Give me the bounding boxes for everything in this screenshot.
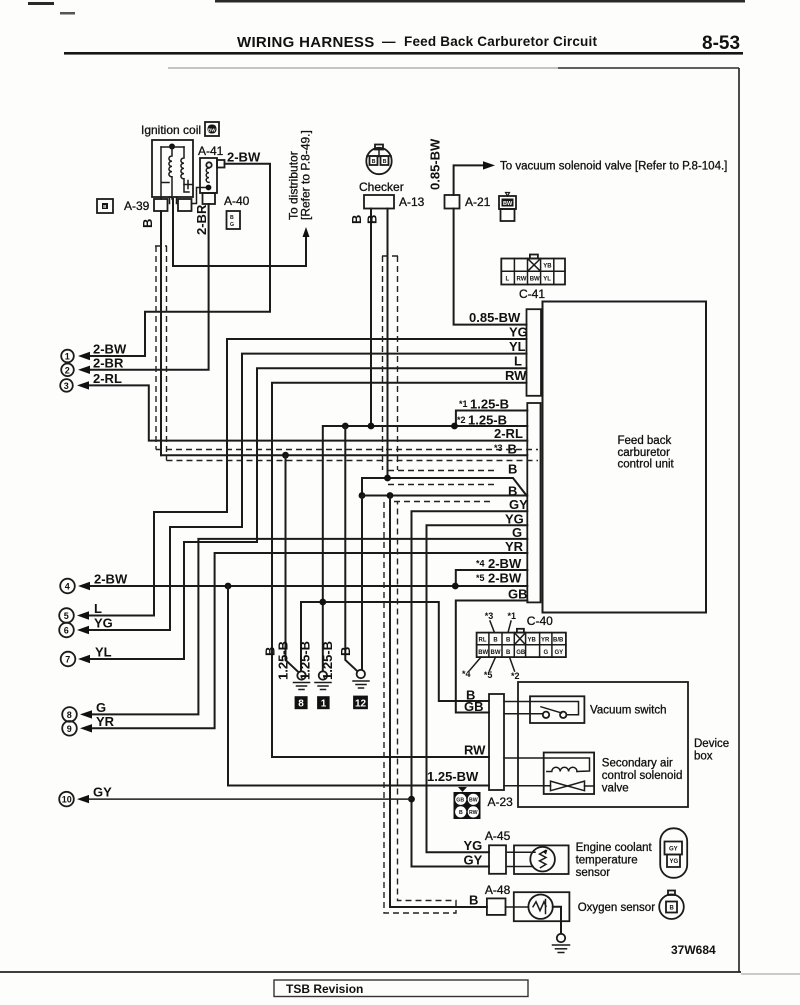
vacuum switch GB wire inside [504, 713, 543, 715]
A-40 connector icon [227, 211, 241, 229]
staircase L jog [89, 542, 257, 659]
wire YR row to circled 9 [89, 553, 527, 728]
A-41 right nub [217, 160, 225, 168]
svg-text:3: 3 [64, 381, 69, 391]
svg-text:*5: *5 [484, 670, 493, 680]
svg-text:1.25-BW: 1.25-BW [427, 769, 479, 784]
frame top line [168, 67, 558, 69]
svg-text:2-BR: 2-BR [93, 355, 124, 370]
wire G row to circled 8 [89, 539, 527, 715]
ground pin number 12 [353, 696, 368, 710]
svg-text:BW: BW [503, 201, 513, 207]
node 2-BW branch to solenoid [225, 583, 232, 590]
svg-text:G: G [544, 650, 549, 656]
svg-text:1.25-B: 1.25-B [298, 641, 313, 680]
svg-text:Vacuum switch: Vacuum switch [590, 705, 666, 717]
svg-text:box: box [694, 751, 713, 763]
svg-text:*3: *3 [494, 443, 503, 453]
svg-text:carburetor: carburetor [618, 447, 671, 459]
wire B down to A-48 oxygen sensor [390, 496, 487, 908]
svg-text:sensor: sensor [576, 867, 611, 879]
dashed harness mid horizontals [388, 470, 496, 472]
arrowhead to distributor [303, 227, 310, 237]
control unit connector strip upper [527, 309, 542, 396]
svg-text:BW: BW [208, 128, 216, 133]
circled connector 5 [59, 608, 74, 623]
wire YG2 row to A-45 [427, 525, 528, 852]
svg-text:A-23: A-23 [488, 795, 514, 809]
wire GY to circled 10 [89, 798, 412, 800]
svg-text:YB: YB [543, 264, 552, 270]
C-40 connector grid [477, 629, 566, 657]
node B link [359, 492, 366, 499]
svg-text:B: B [506, 650, 511, 656]
svg-text:B: B [372, 159, 376, 165]
ground pin number 8 [295, 696, 308, 709]
svg-text:37W684: 37W684 [671, 943, 716, 957]
plus sign [184, 181, 192, 189]
frame right line [738, 68, 740, 972]
svg-text:YG: YG [94, 616, 113, 631]
solenoid coil symbol [547, 767, 577, 771]
svg-text:RW: RW [505, 368, 527, 383]
wire *4 row [456, 570, 528, 586]
coil terminal connector A-39 side [154, 199, 168, 211]
node ground12 branch [342, 423, 349, 430]
ground 8 symbol [294, 671, 310, 689]
Vacuum switch box [530, 696, 584, 723]
svg-text:2-RL: 2-RL [93, 371, 122, 386]
coolant sensor element circle [530, 847, 555, 872]
Oxygen sensor box [514, 892, 570, 921]
svg-text:Oxygen sensor: Oxygen sensor [578, 902, 656, 914]
svg-text:—: — [382, 34, 396, 49]
circled connector 3 [60, 379, 73, 392]
svg-text:A-39: A-39 [124, 199, 150, 213]
wire 2-BR from A-41 down to circled 2 [89, 204, 209, 370]
staircase YG jog [89, 512, 227, 616]
svg-text:A-13: A-13 [399, 195, 425, 209]
A-41 connector box [200, 158, 217, 193]
wire YL row [242, 354, 527, 527]
A-45 connector [489, 845, 506, 874]
svg-text:GB: GB [516, 650, 526, 656]
node B branch to ground 8 [282, 452, 289, 459]
svg-text:BW: BW [491, 650, 501, 656]
svg-text:G: G [230, 222, 234, 228]
arrow 1 [78, 352, 90, 360]
svg-text:*3: *3 [485, 611, 494, 621]
oxygen sensor zigzag symbol [533, 902, 546, 911]
svg-text:YL: YL [95, 645, 112, 660]
jog wire plus-terminal to A-41 [192, 188, 206, 204]
svg-text:*2: *2 [457, 415, 466, 425]
circled connector 8 [62, 707, 77, 722]
circled connector 1 [61, 350, 74, 363]
svg-text:YR: YR [96, 714, 115, 729]
vacuum switch blade [541, 707, 562, 713]
wire RW row to device bar [272, 383, 527, 757]
svg-text:B/B: B/B [553, 638, 564, 644]
svg-text:B: B [338, 647, 353, 656]
wire 1.25-BW branch down to device bar [228, 586, 489, 786]
A-23 connector icon [454, 787, 481, 819]
solenoid valve symbol [551, 781, 568, 791]
svg-text:0.85-BW: 0.85-BW [428, 138, 443, 190]
svg-text:GY: GY [509, 497, 528, 512]
Secondary air control solenoid valve box [544, 753, 594, 795]
Engine coolant temperature sensor box [514, 845, 569, 874]
svg-text:B: B [140, 219, 155, 228]
circled connector 9 [62, 721, 77, 736]
ignition coil connector icon [205, 122, 219, 136]
svg-text:To vacuum solenoid valve [Refe: To vacuum solenoid valve [Refer to P.8-1… [500, 161, 727, 173]
coil top bar wire [161, 146, 184, 148]
arrow 2 [78, 366, 90, 374]
svg-text:Secondary air: Secondary air [602, 758, 673, 770]
circled connector 4 [60, 579, 75, 594]
svg-text:2-BW: 2-BW [227, 150, 261, 165]
svg-text:[Refer to P.8-49.]: [Refer to P.8-49.] [299, 130, 313, 220]
oxygen sensor ground symbol [553, 934, 570, 953]
wire 1.25-B to ground 12 diagonal [345, 426, 357, 671]
svg-text:A-45: A-45 [485, 829, 511, 843]
svg-text:B: B [466, 688, 475, 703]
svg-text:B: B [365, 215, 380, 224]
Device box outline [518, 682, 688, 807]
ground 1 symbol [315, 671, 331, 689]
svg-text:control unit: control unit [618, 459, 675, 471]
svg-text:B: B [103, 204, 106, 209]
svg-text:RW: RW [517, 277, 527, 283]
svg-text:1.25-B: 1.25-B [276, 641, 291, 680]
svg-text:B: B [469, 893, 478, 908]
svg-text:B: B [349, 215, 364, 224]
svg-text:RW: RW [464, 743, 486, 758]
svg-text:GY: GY [464, 852, 483, 867]
A-13 connector [364, 195, 394, 209]
svg-text:*4: *4 [476, 559, 485, 569]
wire *5 2-BW row to circled 4 [89, 585, 527, 587]
checker left wire B down to 1.25-B bus [370, 209, 372, 427]
dashed corridor 1 top cap [155, 245, 167, 247]
frame bottom line [0, 971, 741, 973]
svg-text:A-48: A-48 [485, 883, 511, 897]
arrow 5 [77, 611, 89, 619]
svg-text:*4: *4 [462, 669, 471, 679]
arrow 9 [80, 724, 92, 732]
arrow 4 [78, 582, 90, 590]
svg-text:B: B [506, 638, 511, 644]
svg-text:2: 2 [65, 365, 70, 375]
svg-text:control solenoid: control solenoid [602, 770, 683, 782]
wire B from A-39 down to *3 B row [160, 211, 162, 455]
svg-text:2-BW: 2-BW [94, 572, 128, 587]
dashed harness corridor 1 vertical pair [155, 246, 157, 450]
svg-text:A-40: A-40 [224, 194, 250, 208]
svg-text:G: G [96, 700, 106, 715]
coil left wire to minus terminal [160, 147, 162, 199]
svg-text:temperature: temperature [576, 855, 638, 867]
svg-text:*1: *1 [508, 611, 517, 621]
svg-text:*1: *1 [459, 399, 468, 409]
svg-text:1.25-B: 1.25-B [320, 641, 335, 680]
svg-text:GY: GY [555, 650, 564, 656]
svg-text:*2: *2 [511, 671, 520, 681]
node checker-right joins B row [384, 475, 391, 482]
dashed harness corridor 2 vertical pair [382, 256, 384, 470]
oxygen sensor connector icon [659, 891, 684, 920]
svg-text:8: 8 [67, 710, 72, 720]
wire YG row [227, 339, 527, 512]
svg-text:L: L [514, 354, 522, 369]
Checker icon [366, 145, 391, 175]
svg-text:GB: GB [456, 797, 464, 803]
A-48 connector [487, 898, 506, 915]
svg-text:GY: GY [669, 847, 678, 853]
coil pin ticks [169, 197, 171, 204]
svg-text:10: 10 [62, 795, 72, 805]
ground bus wire [301, 602, 489, 701]
dashed harness corridor 1 horizontals [156, 449, 538, 451]
node *1 joins *2 [451, 423, 458, 430]
wire GY row down to circled 10 and A-45 [412, 511, 528, 866]
control unit connector strip lower [527, 403, 540, 602]
arrow 7 [78, 655, 90, 663]
oxygen sensor element circle [528, 895, 552, 919]
svg-text:9: 9 [67, 724, 72, 734]
TSB Revision box [274, 980, 528, 997]
svg-text:L: L [94, 601, 102, 616]
svg-text:B: B [230, 215, 234, 221]
svg-text:Feed Back Carburetor Circuit: Feed Back Carburetor Circuit [404, 34, 597, 49]
svg-text:Checker: Checker [359, 180, 404, 194]
ground pin number 1 [317, 696, 330, 709]
svg-text:0.85-BW: 0.85-BW [469, 310, 521, 325]
svg-text:BW: BW [478, 650, 488, 656]
node *4 joins *5 [452, 583, 459, 590]
circled connector 10 [59, 792, 74, 807]
coolant sensor connector icon (capsule) [660, 828, 687, 878]
wire B branch down to ground 8 [286, 455, 298, 671]
coil top junction node [169, 144, 175, 150]
A-21 connector [445, 195, 460, 209]
svg-text:TSB Revision: TSB Revision [286, 982, 363, 996]
svg-text:1: 1 [321, 699, 327, 710]
header underline [64, 52, 743, 55]
Feed back carburetor control unit box [543, 302, 707, 613]
svg-text:6: 6 [64, 626, 69, 636]
svg-text:1.25-B: 1.25-B [470, 397, 509, 412]
solenoid RW wire inside [504, 758, 590, 772]
wire bus end down to ground 8 [300, 602, 302, 671]
node bus to ground 1 [319, 599, 326, 606]
svg-text:B: B [459, 810, 463, 816]
svg-text:RL: RL [479, 638, 487, 644]
wire B down to ground 12 [361, 496, 363, 670]
svg-text:BW: BW [530, 277, 540, 283]
node B drop to oxygen sensor [387, 492, 394, 499]
arrow 8 [80, 710, 92, 718]
wire *1 row [456, 411, 527, 427]
circled connector 7 [61, 652, 76, 667]
svg-text:2-BW: 2-BW [488, 571, 522, 586]
oxygen sensor ground wire [553, 907, 561, 934]
svg-text:2-BW: 2-BW [93, 342, 127, 357]
svg-text:YG: YG [464, 838, 483, 853]
ignition coil box [152, 140, 193, 197]
coolant sensor wires into element [508, 851, 535, 853]
svg-text:Ignition coil: Ignition coil [141, 123, 201, 137]
wire GB row down to device bar [456, 601, 528, 713]
svg-text:8: 8 [298, 699, 304, 710]
circled connector 6 [59, 623, 74, 638]
svg-text:BW: BW [469, 797, 478, 803]
node checker-left joins bus [368, 423, 375, 430]
svg-text:G: G [512, 525, 522, 540]
wire 2-RL row to circled 3 [89, 385, 527, 440]
svg-text:B: B [670, 906, 675, 912]
arrow 6 [77, 626, 89, 634]
svg-text:1: 1 [65, 352, 70, 362]
svg-text:2-BR: 2-BR [194, 204, 209, 235]
C-41 connector grid [501, 255, 565, 285]
svg-text:valve: valve [602, 783, 629, 795]
svg-text:7: 7 [65, 655, 70, 665]
svg-text:2-RL: 2-RL [494, 426, 523, 441]
svg-text:12: 12 [355, 698, 367, 709]
circled connector 2 [61, 364, 74, 377]
svg-text:2-BW: 2-BW [488, 556, 522, 571]
svg-text:Device: Device [694, 738, 729, 750]
arrow 10 [77, 795, 89, 803]
svg-text:A-41: A-41 [198, 144, 224, 158]
primary winding [169, 147, 172, 199]
svg-text:YR: YR [505, 539, 524, 554]
A-41 lower terminal node [206, 185, 212, 191]
svg-text:YL: YL [509, 339, 526, 354]
svg-text:YG: YG [670, 859, 679, 865]
wire B row 1 with diagonal into strip [362, 478, 527, 496]
svg-text:L: L [506, 277, 510, 283]
wire B1-B2 link [361, 478, 363, 496]
page top edge marks [28, 2, 54, 5]
wire L row [257, 368, 527, 542]
svg-text:Engine coolant: Engine coolant [576, 842, 653, 854]
svg-text:GY: GY [93, 785, 112, 800]
svg-text:RW: RW [469, 810, 478, 816]
device connector bar [489, 694, 504, 790]
svg-text:YB: YB [528, 638, 537, 644]
wire coil to distributor [173, 199, 306, 266]
thermistor symbol [540, 851, 547, 868]
svg-text:Feed back: Feed back [618, 435, 672, 447]
checker right wire B down to B row [387, 209, 389, 479]
A-21 wire down to 0.85-BW row [454, 209, 527, 325]
svg-text:C-40: C-40 [527, 614, 553, 628]
svg-text:4: 4 [65, 582, 70, 592]
svg-text:8-53: 8-53 [702, 33, 740, 54]
ground 12 symbol [353, 670, 369, 688]
vacuum switch contacts [543, 712, 549, 718]
svg-text:A-21: A-21 [465, 195, 491, 209]
wire 2-BW from A-41 to circled 1 [89, 164, 270, 356]
A-41 terminal circle [206, 162, 211, 167]
svg-text:GB: GB [508, 587, 528, 602]
A-41 bottom connector [203, 193, 216, 204]
svg-text:*5: *5 [476, 573, 485, 583]
svg-text:B: B [383, 159, 387, 165]
A-41 internal resistor squiggle [206, 168, 209, 182]
svg-text:B: B [508, 462, 517, 477]
A-21 connector icon [499, 193, 516, 222]
arrow 3 [77, 381, 89, 389]
svg-text:YL: YL [543, 277, 551, 283]
wire *3 B row from A-39 [161, 454, 527, 456]
svg-text:YR: YR [541, 638, 550, 644]
svg-text:5: 5 [64, 611, 69, 621]
svg-text:C-41: C-41 [519, 287, 545, 301]
A-39 branch icon [97, 199, 113, 213]
wire A-21 up and to vacuum solenoid arrow [454, 165, 484, 195]
dashed corridor 2 top cap [382, 255, 398, 257]
vacuum switch B wire inside [504, 702, 579, 715]
svg-text:WIRING HARNESS: WIRING HARNESS [237, 34, 375, 51]
minus sign [162, 182, 169, 184]
secondary winding [181, 147, 189, 192]
staircase YL jog [89, 527, 242, 630]
svg-text:B: B [493, 638, 498, 644]
arrowhead to vacuum solenoid valve [483, 161, 495, 169]
solenoid BW wire inside [504, 785, 551, 787]
svg-text:YG: YG [509, 325, 528, 340]
wire B row 2 [362, 495, 527, 497]
coil plus terminal connector [178, 199, 192, 211]
oxygen sensor wire into element [506, 906, 529, 908]
node GY branch [408, 796, 415, 803]
wire *2 1.25-B bus row [323, 426, 528, 671]
